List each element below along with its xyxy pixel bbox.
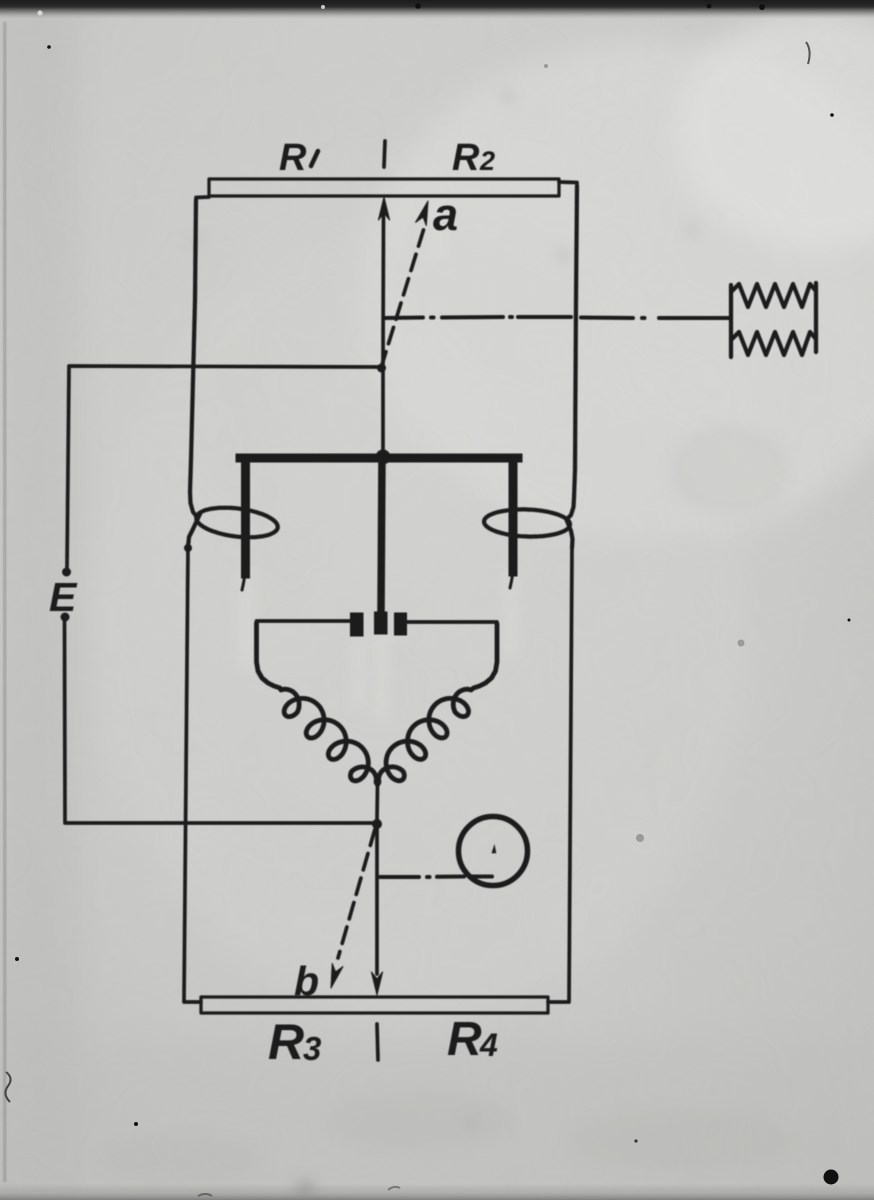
dash-dot link from wiper line to external resistor R [385, 317, 729, 318]
wire: centre vertical from wiper pivot to transformer yoke [381, 368, 385, 453]
node: junction above R3-R4 wiper [372, 819, 382, 829]
wire: vertical to R3-R4 wiper arrow [375, 827, 379, 974]
galvanometer G body [459, 817, 528, 886]
svg-text:b: b [294, 958, 319, 1004]
wire: battery E bottom lead to junction node [65, 621, 375, 823]
node: yoke centre junction [376, 450, 391, 465]
svg-text:R: R [447, 1013, 482, 1066]
arrowhead of dashed wiper b [331, 963, 343, 988]
wire: battery E top lead from wiper pivot [67, 366, 383, 568]
transformer yoke right leg tail [510, 572, 513, 588]
wire: left branch lower vertical to R3-R4 left end [184, 547, 201, 1002]
dashed wiper position a [381, 225, 425, 368]
battery E terminal (top) [62, 568, 71, 577]
inductor coil L2 (right) [378, 624, 497, 784]
wire from R2 end to right branch [559, 182, 577, 195]
interrupter contact plate (right) [394, 613, 407, 636]
svg-text:E: E [49, 574, 78, 620]
wire: right contact plate to coil L2 [407, 620, 497, 624]
svg-text:3: 3 [303, 1030, 321, 1067]
transformer centre stem [381, 455, 382, 613]
wiper arrowhead on R1-R2 [378, 197, 389, 220]
wire: coil common stem [375, 784, 379, 821]
transformer yoke bar and legs [240, 458, 518, 574]
svg-text:a: a [433, 189, 458, 240]
wire: left branch vertical with crossing hop [188, 200, 278, 547]
battery E terminal (bottom) [61, 613, 70, 622]
node: wiper pivot [377, 364, 386, 373]
external resistor R (double zig-zag) [731, 283, 816, 357]
arrowhead of dashed wiper a [416, 201, 428, 226]
transformer yoke left leg tail [242, 574, 245, 590]
svg-text:2: 2 [479, 146, 495, 176]
interrupter contact plate (left) [350, 613, 364, 637]
dash-dot link to galvanometer G [380, 875, 492, 880]
svg-text:4: 4 [479, 1027, 498, 1063]
svg-text:R: R [452, 137, 480, 179]
svg-text:R: R [279, 137, 307, 179]
label R1 subscript 1 [311, 151, 318, 166]
slide-wire resistor R3-R4 [201, 997, 548, 1013]
wiper arrowhead on R3-R4 [371, 972, 382, 995]
galvanometer G needle [492, 845, 496, 853]
wire: left contact plate to coil L1 [257, 619, 351, 623]
junction on left branch below hop [184, 544, 192, 552]
wire from R1 end to left branch [196, 197, 209, 210]
interrupter contact plate (centre) [374, 612, 388, 635]
centre tick between R3 and R4 [377, 1024, 378, 1060]
wiper arrow shaft on R1-R2 [381, 214, 385, 368]
inductor coil L1 (left) [257, 623, 378, 784]
centre tick between R1 and R2 [384, 141, 385, 167]
dashed wiper position b [338, 829, 375, 958]
slide-wire resistor R1-R2 [209, 179, 559, 196]
wire: right branch lower vertical to R3-R4 right end [548, 548, 572, 1002]
wire: right branch vertical with crossing hop [484, 186, 577, 548]
svg-text:R: R [268, 1014, 304, 1070]
